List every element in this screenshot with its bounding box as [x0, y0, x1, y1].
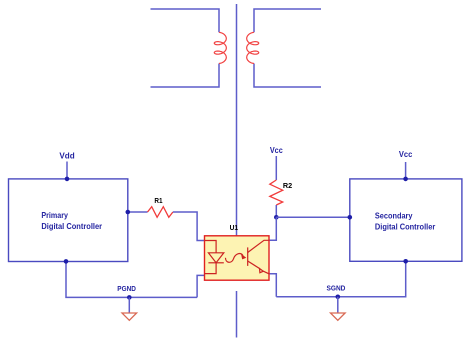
node primary box right pin: [126, 210, 131, 215]
ground SGND symbol: [331, 313, 346, 320]
wire R1 to optocoupler anode: [173, 212, 205, 241]
phototransistor inside U1: [248, 240, 269, 273]
wire junction to secondary box: [276, 216, 350, 218]
wire transformer primary bottom lead: [151, 64, 220, 88]
svg-text:U1: U1: [230, 225, 239, 232]
node Vdd junction dot: [65, 177, 70, 182]
wire optocoupler emitter to SGND: [269, 274, 276, 297]
svg-text:Digital Controller: Digital Controller: [41, 221, 102, 231]
node secondary box left pin: [348, 215, 353, 220]
secondary digital controller box: [350, 179, 462, 261]
wire SGND rail to secondary box bottom: [276, 261, 405, 297]
inductor transformer primary winding: [214, 32, 226, 63]
wire optocoupler cathode to PGND: [197, 275, 204, 297]
node R2 junction dot: [274, 215, 279, 220]
wire junction down to optocoupler collector: [269, 217, 276, 240]
wire PGND ground stub: [128, 297, 130, 313]
svg-text:Digital Controller: Digital Controller: [375, 221, 436, 231]
isolation barrier line lower segment: [236, 291, 238, 338]
wire transformer secondary bottom lead: [254, 64, 321, 88]
LED diode inside U1: [205, 241, 224, 274]
svg-text:R1: R1: [154, 198, 162, 205]
ground PGND symbol: [122, 313, 137, 320]
node PGND junction dot: [127, 295, 132, 300]
resistor R2: [270, 180, 283, 205]
isolation barrier line upper segment: [236, 4, 238, 236]
wire Vcc to R2: [275, 156, 277, 180]
resistor R1: [148, 207, 173, 218]
wire SGND ground stub: [337, 297, 339, 313]
svg-text:Vcc: Vcc: [270, 145, 283, 155]
node secondary box top pin: [403, 177, 408, 182]
wire transformer primary top lead: [151, 9, 220, 32]
svg-text:Secondary: Secondary: [375, 210, 413, 220]
wire transformer secondary top lead: [254, 9, 321, 32]
svg-text:R2: R2: [283, 183, 292, 190]
wire R1 net from primary box: [128, 211, 148, 213]
coupling squiggle arrow inside U1: [225, 254, 243, 263]
svg-text:PGND: PGND: [117, 284, 136, 293]
inductor transformer secondary winding: [247, 32, 259, 63]
wire primary box bottom to PGND rail: [66, 261, 197, 297]
svg-text:SGND: SGND: [327, 284, 346, 293]
svg-text:Primary: Primary: [41, 210, 68, 220]
svg-text:Vdd: Vdd: [59, 151, 74, 161]
wire Vdd stub: [66, 162, 68, 179]
wire R2 to junction: [275, 205, 277, 217]
node SGND junction dot: [336, 295, 341, 300]
primary digital controller box: [9, 179, 128, 262]
primary controller label: [41, 210, 102, 231]
node secondary box bottom pin: [403, 259, 408, 264]
optocoupler U1 body: [205, 236, 270, 280]
svg-text:Vcc: Vcc: [399, 149, 413, 159]
node primary box bottom pin: [64, 259, 69, 264]
secondary controller label: [375, 210, 436, 231]
wire Vcc stub right: [405, 162, 407, 179]
